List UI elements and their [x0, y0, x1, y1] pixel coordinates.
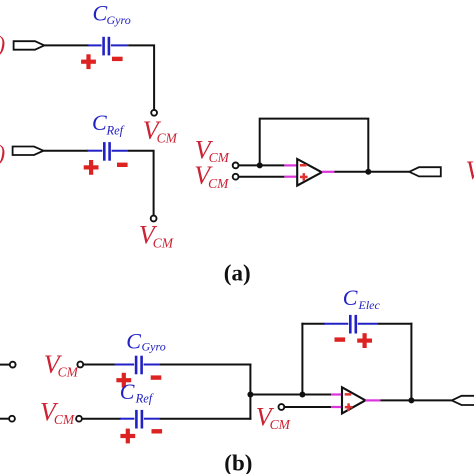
wire: non-inverting input (part b) [284, 406, 331, 408]
op-amp U1 non-inverting input mark (+) [300, 173, 308, 181]
op-amp U1 (part a) [297, 159, 322, 186]
label C_Gyro (part b) [126, 329, 165, 354]
terminal V_CM (part a row 2) [151, 216, 157, 222]
terminal: op-amp b non-inverting input [279, 404, 285, 410]
polarity - of C_Ref (part a) [117, 163, 128, 167]
wire: input tag 2 to C_Ref [44, 150, 89, 152]
wire: C_Ref to terminal corner [128, 151, 154, 216]
wire highlighted: inverting input at op-amp b [331, 393, 342, 395]
wire: C_Gyro to summing corner (part b) [159, 364, 251, 366]
polarity + of C_Gyro (part a) [81, 54, 96, 69]
op-amp U1 inverting input mark (-) [300, 164, 307, 167]
svg-text:CM: CM [157, 131, 178, 146]
svg-text:): ) [0, 32, 5, 57]
polarity + of C_Ref (part a) [84, 160, 99, 175]
svg-text:Ref: Ref [135, 391, 154, 405]
capacitor C_Gyro (part b) [115, 356, 160, 375]
svg-text:Elec: Elec [358, 298, 381, 312]
wire: summing vertical (part b) [249, 364, 251, 420]
wire highlighted: op-amp a output [322, 171, 335, 173]
svg-text:CM: CM [153, 235, 174, 250]
wire: V_CM terminal to C_Gyro (part b) [83, 364, 115, 366]
svg-text:C: C [92, 110, 107, 135]
junction: feedback to inverting input (part a) [257, 162, 263, 168]
capacitor C_Gyro (part a) [88, 37, 128, 56]
input tag 1 (part a, gyro input) [14, 41, 45, 50]
polarity - of C_Gyro (part b) [151, 375, 162, 379]
input tag 2 (part a, ref input) [13, 147, 44, 156]
op-amp U2 inverting input mark (-) [345, 393, 352, 396]
wire highlighted: non-inverting input at op-amp a [284, 176, 297, 178]
label C_Elec [343, 285, 381, 312]
wire: summing node to op-amp b inverting input [250, 394, 331, 396]
polarity - of C_Ref (part b) [152, 429, 163, 433]
svg-text:(b): (b) [224, 450, 252, 474]
svg-text:Gyro: Gyro [142, 339, 166, 353]
net label fragment "V" (part a output) [466, 156, 474, 185]
junction: feedback to output (part a) [365, 169, 371, 175]
polarity + of C_Elec [357, 333, 372, 348]
wire: op-amp a output to tag [335, 171, 410, 173]
polarity - of C_Gyro (part a) [112, 57, 123, 61]
wire: stub to left terminal 2 (part b) [0, 418, 9, 420]
terminal V_CM (part b row 1) [77, 362, 83, 368]
label C_Ref (part b) [120, 379, 154, 406]
svg-text:C: C [120, 379, 135, 404]
terminal: gyro input stub (part b) [10, 362, 16, 368]
wire: feedback left vertical (part b) [301, 323, 303, 395]
net label fragment ")" row 1 [0, 32, 5, 57]
polarity + of C_Ref (part b) [120, 429, 135, 444]
polarity - of C_Elec [335, 337, 346, 341]
svg-text:C: C [93, 0, 108, 25]
output tag (part b) [452, 396, 474, 405]
wire: stub to left terminal 1 (part b) [0, 364, 10, 366]
wire: input tag 1 to C_Gyro [44, 44, 89, 46]
op-amp U2 (part b) [342, 387, 365, 413]
svg-text:C: C [343, 285, 358, 310]
svg-text:CM: CM [209, 150, 230, 165]
wire: feedback right vertical (part b) [410, 323, 412, 401]
label V_CM (part a row 2) [139, 221, 174, 251]
wire: V_CM terminal to C_Ref (part b) [82, 418, 121, 420]
label V_CM (op-amp a non-inverting input) [194, 161, 229, 191]
wire: inverting input (part a) [239, 164, 285, 166]
svg-text:(a): (a) [224, 261, 251, 286]
svg-text:CM: CM [58, 365, 79, 380]
svg-text:CM: CM [270, 417, 291, 432]
junction: feedback to output (part b) [408, 397, 414, 403]
wire: feedback top left segment (part b) [301, 323, 325, 325]
terminal: op-amp a inverting input [233, 163, 239, 169]
wire: feedback top right segment (part b) [377, 323, 412, 325]
terminal V_CM (part a row 1) [151, 110, 157, 116]
terminal: op-amp a non-inverting input [233, 174, 239, 180]
wire: op-amp b output to tag [381, 399, 452, 401]
output tag (part a) [409, 167, 441, 176]
label V_CM (part b row 2) [40, 397, 75, 427]
junction: summing node (part b) [247, 392, 253, 398]
wire: non-inverting input (part a) [239, 176, 285, 178]
capacitor C_Elec (part b) [324, 315, 377, 334]
wire highlighted: non-inverting input at op-amp b [331, 406, 342, 408]
wire: C_Ref to summing corner (part b) [159, 418, 251, 420]
label V_CM (op-amp a inverting input) [195, 135, 230, 165]
label V_CM (part a row 1) [143, 116, 178, 146]
svg-text:C: C [126, 329, 141, 354]
polarity + of C_Gyro (part b) [116, 373, 131, 388]
wire highlighted: inverting input at op-amp a [284, 164, 297, 166]
label (a) [224, 261, 251, 286]
op-amp U2 non-inverting input mark (+) [345, 403, 353, 411]
wire: feedback loop (part a) [260, 119, 369, 172]
junction: feedback to inverting input (part b) [299, 392, 305, 398]
label C_Ref (part a) [92, 110, 125, 137]
label C_Gyro (part a) [93, 0, 131, 27]
svg-text:CM: CM [54, 412, 75, 427]
label V_CM (part b row 1) [44, 350, 79, 380]
terminal: ref input stub (part b) [9, 416, 15, 422]
svg-text:): ) [0, 141, 5, 166]
svg-text:V: V [466, 156, 474, 185]
svg-text:Ref: Ref [106, 123, 125, 137]
terminal V_CM (part b row 2) [76, 416, 82, 422]
capacitor C_Ref (part a) [87, 142, 128, 161]
label V_CM (op-amp b non-inverting input) [256, 402, 291, 432]
net label fragment ")" row 2 [0, 141, 5, 166]
wire highlighted: op-amp b output [365, 399, 380, 401]
capacitor C_Ref (part b) [120, 410, 159, 429]
label (b) [224, 450, 252, 474]
svg-text:CM: CM [208, 176, 229, 191]
wire: C_Gyro to terminal corner [128, 45, 154, 110]
svg-text:Gyro: Gyro [107, 13, 131, 27]
